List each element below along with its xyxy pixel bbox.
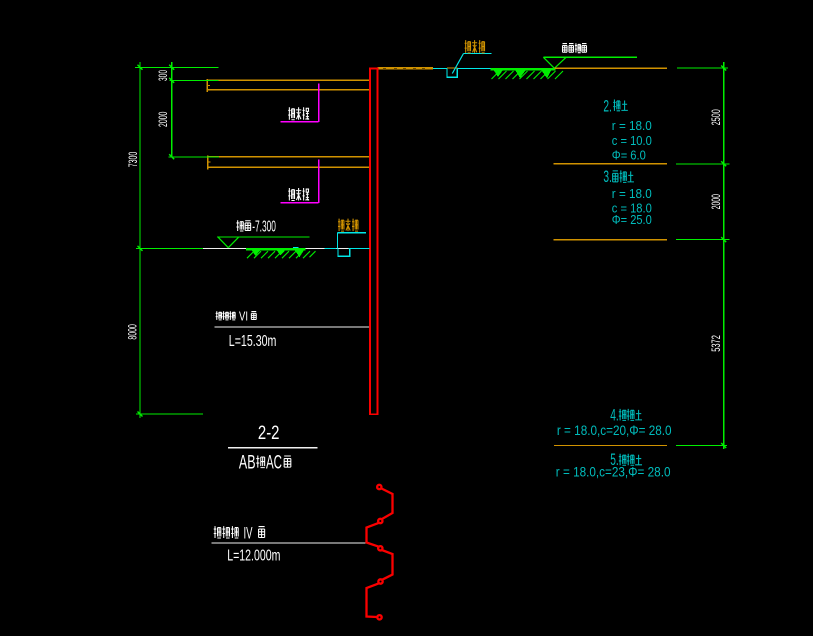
right dim ext y=239.6: [676, 239, 730, 241]
svg-text:5372: 5372: [709, 335, 723, 352]
svg-text:Φ= 6.0: Φ= 6.0: [612, 148, 646, 163]
svg-text:AB: AB: [239, 452, 256, 473]
dim line 300 y=80.4: [170, 79, 219, 81]
road elevation line: [543, 56, 637, 58]
thick orange ground band: [377, 68, 433, 69]
svg-text:r = 18.0,c=23,Φ= 28.0: r = 18.0,c=23,Φ= 28.0: [556, 463, 671, 479]
dim line bottom y=414: [136, 413, 203, 415]
label 钢支撑 1: [288, 107, 309, 119]
STRUT LABEL 2 leader (magenta): [280, 160, 318, 203]
pit elevation marker line: [217, 236, 310, 238]
svg-text:r = 18.0: r = 18.0: [612, 186, 652, 201]
left inner dim vertical: [171, 62, 173, 157]
dim line pit bottom y=248.4: [136, 247, 203, 249]
svg-text:2000: 2000: [156, 111, 170, 127]
pit elevation triangle: [218, 237, 238, 247]
white segments: [203, 247, 349, 249]
svg-text:2.: 2.: [603, 96, 612, 115]
leader line VI: [214, 326, 368, 328]
soil line 4/5: [554, 445, 667, 447]
SOIL LAYER BOUNDARY LINES: [554, 164, 668, 446]
drain 2 leader underline: [337, 232, 366, 234]
svg-text:VI: VI: [239, 308, 248, 323]
road elevation marker triangle: [543, 57, 566, 68]
STRUT LABEL 1 leader (magenta): [280, 84, 318, 122]
right dim ext top y=68: [677, 67, 728, 69]
LABEL 钢板桩 VI型: [216, 311, 236, 320]
svg-text:AC: AC: [266, 452, 282, 473]
STRUT 1 (orange waler): [207, 79, 368, 92]
svg-text:-7.300: -7.300: [252, 219, 276, 236]
SHEET PILE WALL (red): [369, 68, 379, 415]
LEFT DIMENSION CHAIN: [135, 62, 219, 418]
title underline: [228, 447, 317, 449]
drain 1 (top) cyan U: [447, 68, 457, 77]
right chain ticks: [721, 66, 726, 449]
drain 1 leader diagonal: [452, 54, 463, 74]
SHEET PILE PROFILE (red zigzag): [367, 485, 393, 620]
pit hatch diagonal strokes: [247, 251, 316, 258]
LABEL 钢板桩 IV型 (bottom): [214, 526, 239, 538]
svg-text:IV: IV: [244, 524, 253, 543]
svg-text:c = 10.0: c = 10.0: [612, 133, 652, 148]
right dim ext y=163.8: [676, 163, 730, 165]
svg-text:2-2: 2-2: [258, 423, 280, 444]
label 钢支撑 2: [288, 188, 309, 200]
svg-text:8000: 8000: [126, 324, 140, 340]
drain 2 (pit) cyan U below line: [338, 248, 350, 256]
drain 2 leader riser: [337, 233, 339, 249]
RIGHT DIMENSION CHAIN: [676, 62, 730, 449]
label 排水沟 (pit drain): [338, 219, 358, 231]
svg-text:r = 18.0,c=20,Φ= 28.0: r = 18.0,c=20,Φ= 28.0: [557, 422, 672, 438]
leader line IV: [212, 542, 367, 544]
left outer dim vertical: [139, 62, 141, 418]
label 坑底-7.300: [236, 220, 250, 231]
svg-text:3.: 3.: [603, 167, 612, 186]
dim line strut2 y=157: [168, 156, 219, 158]
soil line 3/4: [554, 239, 667, 241]
svg-text:300: 300: [156, 70, 170, 81]
orange line over drain top: [447, 67, 457, 69]
STRUT 2 (orange waler): [208, 156, 369, 170]
cyan surface right of drain: [457, 67, 490, 69]
soil line 2/3: [554, 163, 667, 165]
green overlay of dim lines over struts: [170, 79, 219, 81]
svg-text:L=12.000m: L=12.000m: [227, 548, 280, 565]
svg-text:L=15.30m: L=15.30m: [229, 333, 277, 350]
road hatch diagonal strokes: [492, 71, 564, 79]
right dim ext y=445.5: [676, 445, 727, 447]
label 路面标高: [562, 43, 586, 52]
cyan segments on pit bottom: [293, 247, 370, 250]
right dim vertical: [723, 62, 725, 449]
cyan surface left of drain: [433, 67, 447, 69]
orange ground line right part: [554, 67, 667, 69]
left chain ticks: [138, 65, 175, 417]
svg-text:2500: 2500: [709, 109, 723, 125]
road green hatch strip: [491, 68, 556, 79]
svg-text:2000: 2000: [709, 194, 723, 210]
pit hatch strip green: [246, 248, 306, 257]
svg-text:r = 18.0: r = 18.0: [612, 118, 652, 133]
dim line top y=67.3: [135, 66, 219, 68]
label 排水沟 (top drain): [465, 40, 485, 53]
drain 1 leader underline: [464, 53, 492, 55]
svg-text:Φ= 25.0: Φ= 25.0: [612, 212, 652, 227]
svg-text:7300: 7300: [126, 152, 140, 168]
